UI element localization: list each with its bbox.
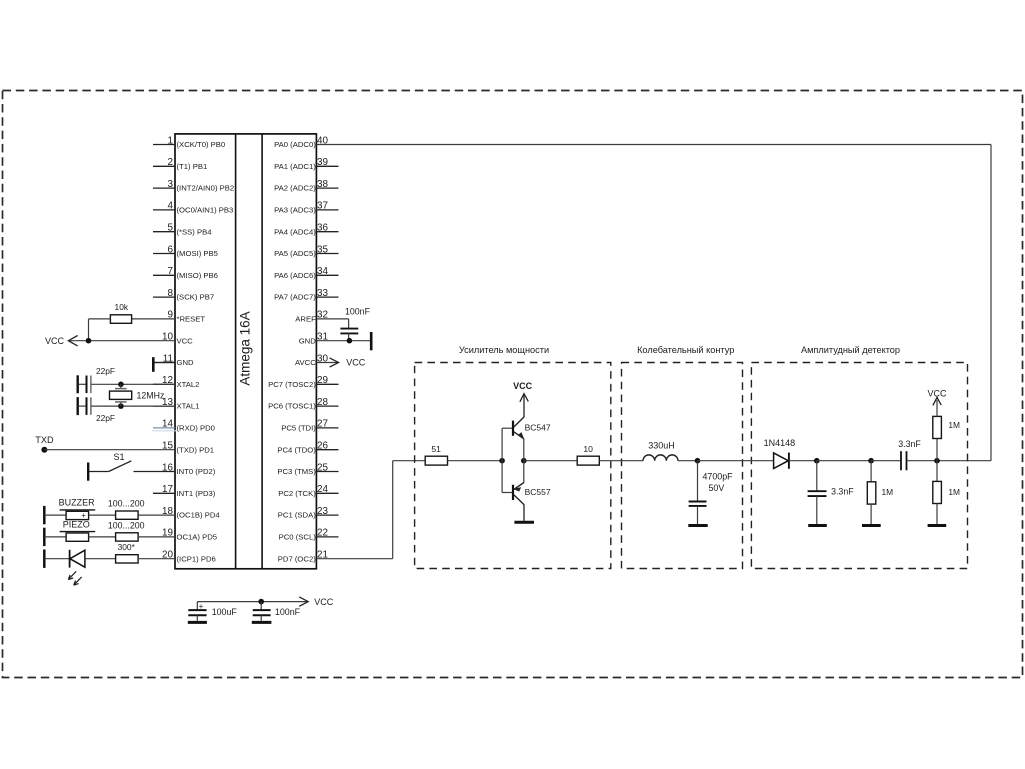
svg-text:(SCK) PB7: (SCK) PB7 bbox=[177, 293, 215, 302]
svg-text:Колебательный контур: Колебательный контур bbox=[637, 345, 734, 355]
svg-text:3.3nF: 3.3nF bbox=[831, 486, 854, 496]
svg-text:GND: GND bbox=[177, 358, 195, 367]
svg-text:PC7 (TOSC2): PC7 (TOSC2) bbox=[268, 380, 316, 389]
svg-text:(MOSI) PB5: (MOSI) PB5 bbox=[177, 249, 218, 258]
svg-text:Амплитудный детектор: Амплитудный детектор bbox=[801, 345, 900, 355]
svg-text:4: 4 bbox=[168, 201, 174, 212]
svg-text:BC547: BC547 bbox=[525, 422, 551, 432]
svg-text:PC4 (TDO): PC4 (TDO) bbox=[277, 445, 316, 454]
svg-text:10k: 10k bbox=[115, 302, 129, 312]
svg-text:5: 5 bbox=[168, 223, 174, 234]
svg-text:PA5 (ADC5): PA5 (ADC5) bbox=[274, 249, 316, 258]
svg-text:38: 38 bbox=[317, 179, 328, 190]
svg-text:1M: 1M bbox=[948, 487, 960, 497]
svg-text:BUZZER: BUZZER bbox=[59, 498, 96, 508]
svg-text:25: 25 bbox=[317, 462, 328, 473]
svg-text:22pF: 22pF bbox=[96, 413, 115, 423]
svg-text:7: 7 bbox=[168, 266, 174, 277]
svg-text:PC0 (SCL): PC0 (SCL) bbox=[279, 533, 317, 542]
svg-text:100nF: 100nF bbox=[345, 307, 371, 317]
svg-text:29: 29 bbox=[317, 375, 328, 386]
svg-text:S1: S1 bbox=[113, 452, 124, 462]
svg-text:(*SS) PB4: (*SS) PB4 bbox=[177, 227, 213, 236]
svg-text:10: 10 bbox=[583, 444, 593, 454]
svg-text:14: 14 bbox=[162, 419, 173, 430]
svg-text:VCC: VCC bbox=[927, 389, 947, 399]
svg-text:(TXD) PD1: (TXD) PD1 bbox=[177, 445, 215, 454]
svg-text:6: 6 bbox=[168, 244, 174, 255]
svg-text:100...200: 100...200 bbox=[108, 499, 145, 509]
svg-text:PA7 (ADC7): PA7 (ADC7) bbox=[274, 293, 316, 302]
svg-text:12MHz: 12MHz bbox=[137, 390, 165, 400]
svg-text:(XCK/T0) PB0: (XCK/T0) PB0 bbox=[177, 140, 226, 149]
svg-text:(RXD) PD0: (RXD) PD0 bbox=[177, 424, 215, 433]
svg-text:35: 35 bbox=[317, 244, 328, 255]
svg-text:2: 2 bbox=[168, 157, 174, 168]
svg-text:OC1A) PD5: OC1A) PD5 bbox=[177, 533, 218, 542]
svg-text:VCC: VCC bbox=[513, 381, 533, 391]
svg-text:24: 24 bbox=[317, 484, 328, 495]
svg-text:100...200: 100...200 bbox=[108, 520, 145, 530]
svg-text:PA2 (ADC2): PA2 (ADC2) bbox=[274, 184, 316, 193]
svg-text:VCC: VCC bbox=[177, 336, 194, 345]
svg-text:23: 23 bbox=[317, 506, 328, 517]
svg-text:26: 26 bbox=[317, 441, 328, 452]
svg-text:GND: GND bbox=[299, 336, 317, 345]
svg-text:PC3 (TMS): PC3 (TMS) bbox=[277, 467, 316, 476]
svg-text:VCC: VCC bbox=[346, 358, 366, 368]
svg-text:27: 27 bbox=[317, 419, 328, 430]
svg-text:50V: 50V bbox=[709, 483, 725, 493]
svg-text:100nF: 100nF bbox=[275, 607, 301, 617]
svg-text:(ICP1) PD6: (ICP1) PD6 bbox=[177, 554, 216, 563]
svg-text:22pF: 22pF bbox=[96, 366, 115, 376]
svg-text:PC1 (SDA): PC1 (SDA) bbox=[278, 511, 316, 520]
svg-text:1M: 1M bbox=[882, 487, 894, 497]
svg-text:PD7 (OC2): PD7 (OC2) bbox=[278, 554, 316, 563]
svg-text:1: 1 bbox=[168, 135, 174, 146]
svg-text:PA0 (ADC0): PA0 (ADC0) bbox=[274, 140, 316, 149]
svg-text:330uH: 330uH bbox=[648, 440, 675, 450]
svg-text:28: 28 bbox=[317, 397, 328, 408]
svg-text:PC6 (TOSC1): PC6 (TOSC1) bbox=[268, 402, 316, 411]
svg-text:36: 36 bbox=[317, 223, 328, 234]
svg-text:BC557: BC557 bbox=[525, 487, 551, 497]
svg-text:TXD: TXD bbox=[35, 435, 54, 445]
svg-text:PA6 (ADC6): PA6 (ADC6) bbox=[274, 271, 316, 280]
svg-text:100uF: 100uF bbox=[212, 607, 238, 617]
svg-text:3.3nF: 3.3nF bbox=[898, 439, 921, 449]
svg-text:17: 17 bbox=[162, 484, 173, 495]
svg-text:PC2 (TCK): PC2 (TCK) bbox=[278, 489, 316, 498]
svg-text:VCC: VCC bbox=[314, 597, 334, 607]
svg-text:1M: 1M bbox=[948, 420, 960, 430]
svg-text:37: 37 bbox=[317, 201, 328, 212]
svg-text:VCC: VCC bbox=[45, 336, 65, 346]
svg-text:AVCC: AVCC bbox=[295, 358, 316, 367]
svg-text:22: 22 bbox=[317, 528, 328, 539]
svg-text:PA3 (ADC3): PA3 (ADC3) bbox=[274, 206, 316, 215]
svg-text:PA4 (ADC4): PA4 (ADC4) bbox=[274, 227, 316, 236]
svg-text:34: 34 bbox=[317, 266, 328, 277]
svg-text:AREF: AREF bbox=[295, 315, 316, 324]
svg-text:4700pF: 4700pF bbox=[703, 472, 734, 482]
svg-text:XTAL2: XTAL2 bbox=[177, 380, 200, 389]
svg-text:Atmega 16A: Atmega 16A bbox=[238, 311, 253, 385]
svg-text:(INT2/AIN0) PB2: (INT2/AIN0) PB2 bbox=[177, 184, 235, 193]
svg-text:1N4148: 1N4148 bbox=[764, 438, 796, 448]
svg-text:33: 33 bbox=[317, 288, 328, 299]
svg-text:INT1 (PD3): INT1 (PD3) bbox=[177, 489, 216, 498]
svg-text:+: + bbox=[199, 602, 204, 611]
svg-text:INT0 (PD2): INT0 (PD2) bbox=[177, 467, 216, 476]
svg-text:PC5 (TDI): PC5 (TDI) bbox=[281, 424, 316, 433]
svg-text:3: 3 bbox=[168, 179, 174, 190]
svg-text:(OC0/AIN1) PB3: (OC0/AIN1) PB3 bbox=[177, 206, 234, 215]
svg-text:51: 51 bbox=[431, 444, 441, 454]
svg-text:300*: 300* bbox=[118, 542, 136, 552]
svg-text:PIEZO: PIEZO bbox=[63, 520, 90, 530]
svg-text:Усилитель мощности: Усилитель мощности bbox=[459, 345, 549, 355]
svg-text:(T1) PB1: (T1) PB1 bbox=[177, 162, 208, 171]
svg-text:(MISO) PB6: (MISO) PB6 bbox=[177, 271, 218, 280]
svg-text:XTAL1: XTAL1 bbox=[177, 402, 200, 411]
svg-text:PA1 (ADC1): PA1 (ADC1) bbox=[274, 162, 316, 171]
svg-text:39: 39 bbox=[317, 157, 328, 168]
svg-text:8: 8 bbox=[168, 288, 174, 299]
svg-text:(OC1B) PD4: (OC1B) PD4 bbox=[177, 511, 221, 520]
svg-text:*RESET: *RESET bbox=[177, 315, 206, 324]
